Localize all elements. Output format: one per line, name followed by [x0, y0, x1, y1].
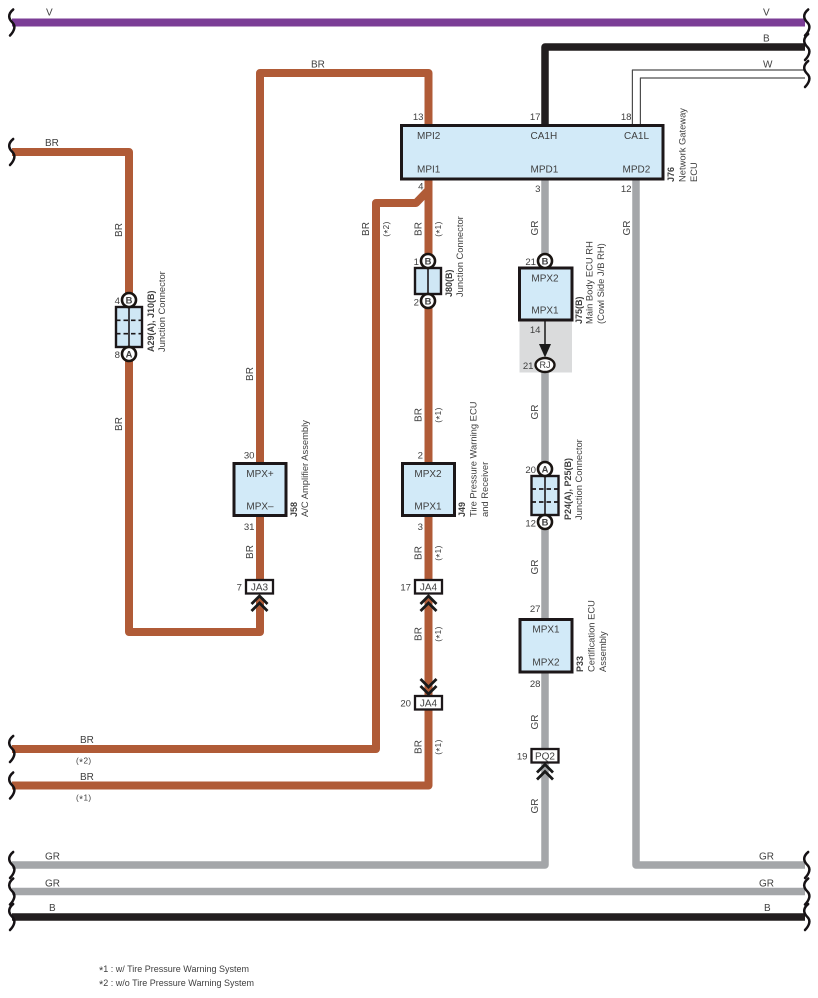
svg-text:A29(A), J10(B): A29(A), J10(B)	[146, 290, 156, 352]
svg-text:B: B	[542, 256, 549, 267]
svg-text:MPX2: MPX2	[414, 469, 442, 480]
off-page squiggle B top right	[804, 34, 809, 60]
svg-text:BR: BR	[414, 222, 425, 236]
svg-text:J49: J49	[457, 502, 467, 517]
pin circle B (A29 pin 4)	[122, 293, 136, 307]
off-page squiggle GR row1 left	[9, 852, 14, 878]
svg-text:V: V	[46, 8, 53, 19]
svg-text:(*1): (*1)	[434, 407, 446, 423]
svg-text:12: 12	[621, 184, 632, 195]
svg-text:(*2): (*2)	[76, 757, 92, 769]
svg-text:and Receiver: and Receiver	[479, 462, 490, 517]
svg-text:28: 28	[530, 679, 541, 690]
svg-text:18: 18	[621, 112, 632, 123]
svg-text:4: 4	[418, 182, 424, 193]
svg-text:(*2): (*2)	[382, 221, 394, 237]
wire from J75 pin 14 to RJ (thin with arrowhead)	[544, 321, 546, 346]
svg-text:21: 21	[523, 361, 534, 372]
pin circle B (J80 pin 1)	[421, 254, 435, 268]
svg-text:BR: BR	[245, 545, 256, 559]
svg-text:BR: BR	[114, 223, 125, 237]
pin circle A (A29 pin 8)	[122, 347, 136, 361]
junction connector A29(A), J10(B) grid box	[116, 307, 142, 347]
wire W (white, hollow outline) from off-page right to J76 pin 18 CA1L	[632, 70, 805, 126]
svg-text:(*1): (*1)	[434, 221, 446, 237]
svg-text:Junction Connector: Junction Connector	[454, 216, 465, 297]
svg-text:Junction Connector: Junction Connector	[573, 439, 584, 520]
off-page squiggle GR row2 left	[9, 879, 14, 905]
svg-text:(*1): (*1)	[434, 545, 446, 561]
wire BR (*1) from J76 pin 4 MPI1 down through J80 and J49 to JA4 pin 17	[425, 178, 433, 581]
svg-text:J58: J58	[289, 502, 299, 517]
svg-text:20: 20	[525, 465, 536, 476]
wire BR (*2) off-page left up to branch joint near J76 pin 4	[12, 190, 429, 749]
svg-text:(*1): (*1)	[434, 739, 446, 755]
svg-text:2: 2	[418, 451, 423, 462]
svg-text:MPX+: MPX+	[246, 469, 274, 480]
off-page squiggle BR (*2) left	[9, 736, 14, 762]
pin circle B (J75 pin 21)	[538, 254, 552, 268]
svg-text:13: 13	[413, 112, 424, 123]
svg-text:31: 31	[244, 522, 255, 533]
svg-text:JA3: JA3	[251, 583, 269, 594]
svg-text:19: 19	[517, 752, 528, 763]
svg-text:BR: BR	[414, 627, 425, 641]
svg-text:BR: BR	[80, 772, 94, 783]
svg-text:21: 21	[525, 257, 536, 268]
svg-text:7: 7	[237, 583, 242, 594]
ECU J76 Network Gateway ECU box	[402, 126, 664, 180]
svg-text:Network Gateway: Network Gateway	[677, 108, 688, 182]
svg-text:P24(A), P25(B): P24(A), P25(B)	[563, 458, 573, 520]
off-page squiggle B row right	[804, 904, 809, 930]
svg-text:MPX1: MPX1	[532, 625, 560, 636]
wire GR bus (second row, off-page both sides)	[12, 888, 805, 896]
svg-text:MPI2: MPI2	[417, 131, 441, 142]
connector JA3 pin 7	[246, 580, 273, 594]
svg-text:GR: GR	[530, 715, 541, 730]
wire BR J58 MPX- pin 31 down to JA3 pin 7	[256, 515, 264, 581]
svg-text:BR: BR	[245, 367, 256, 381]
svg-text:GR: GR	[45, 879, 60, 890]
svg-text:JA4: JA4	[420, 699, 438, 710]
svg-text:MPI1: MPI1	[417, 165, 441, 176]
ECU J49 Tire Pressure Warning ECU box	[403, 464, 455, 516]
svg-text:CA1H: CA1H	[531, 131, 558, 142]
svg-text:MPX1: MPX1	[414, 502, 442, 513]
svg-text:27: 27	[530, 604, 541, 615]
svg-text:P33: P33	[575, 656, 585, 672]
svg-text:GR: GR	[530, 799, 541, 814]
svg-text:B: B	[763, 34, 770, 45]
svg-text:GR: GR	[622, 221, 633, 236]
ECU J75(B) Main Body ECU RH box	[520, 268, 573, 320]
svg-text:B: B	[425, 256, 432, 267]
off-page squiggle BR (*1) left	[9, 773, 14, 799]
svg-text:B: B	[425, 296, 432, 307]
svg-text:J80(B): J80(B)	[444, 269, 454, 297]
svg-text:W: W	[763, 60, 773, 71]
off-page squiggle BR left	[9, 139, 14, 165]
svg-text:ECU: ECU	[688, 162, 699, 182]
chevron pair up below PQ2	[537, 765, 553, 780]
svg-text:GR: GR	[759, 879, 774, 890]
junction connector P24(A), P25(B) grid box	[532, 476, 559, 515]
svg-text:BR: BR	[80, 735, 94, 746]
svg-text:MPX1: MPX1	[531, 306, 559, 317]
off-page squiggle W right	[804, 61, 809, 87]
svg-text:Certification ECU: Certification ECU	[586, 600, 597, 672]
pin circle A (P24 pin 20)	[538, 462, 552, 476]
connector JA4 pin 20	[415, 696, 442, 710]
svg-text:GR: GR	[530, 221, 541, 236]
svg-text:BR: BR	[45, 138, 59, 149]
svg-text:B: B	[126, 295, 133, 306]
svg-text:Assembly: Assembly	[597, 631, 608, 672]
wire B bus (bottom row, off-page both sides)	[12, 913, 805, 921]
svg-text:MPX2: MPX2	[531, 274, 559, 285]
off-page squiggle B row left	[9, 904, 14, 930]
off-page squiggle V right	[804, 10, 809, 36]
svg-text:BR: BR	[414, 408, 425, 422]
svg-text:GR: GR	[530, 405, 541, 420]
svg-text:JA4: JA4	[420, 583, 438, 594]
wire BR from J58 MPX+ pin 30 up and over to J76 pin 13 MPI2	[260, 73, 429, 464]
svg-text:RJ: RJ	[540, 360, 551, 370]
relay block node RJ	[536, 358, 555, 372]
chevron pair down above JA4 pin 20	[421, 679, 437, 694]
ECU P33 Certification ECU Assembly box	[520, 620, 572, 673]
svg-text:BR: BR	[311, 60, 325, 71]
svg-text:BR: BR	[114, 417, 125, 431]
svg-text:CA1L: CA1L	[624, 131, 649, 142]
svg-text:A: A	[126, 349, 133, 360]
junction connector J80(B) grid box	[415, 268, 441, 294]
svg-text:(*1): (*1)	[76, 794, 92, 806]
wire V bus (violet, off-page both sides)	[12, 19, 805, 27]
svg-text:8: 8	[115, 350, 120, 361]
connector PQ2 pin 19	[532, 749, 559, 763]
svg-text:Tire Pressure Warning ECU: Tire Pressure Warning ECU	[468, 401, 479, 517]
wire B (black) from off-page right to J76 pin 17 CA1H	[545, 47, 805, 126]
svg-text:Junction Connector: Junction Connector	[156, 271, 167, 352]
wire BR off-page left through A29 junction down, across to JA3 chevrons	[12, 152, 260, 632]
wire GR from J76 pin 12 MPD2 down to off-page right	[636, 178, 805, 865]
svg-text:12: 12	[525, 519, 536, 530]
svg-text:*1 : w/ Tire Pressure Warning: *1 : w/ Tire Pressure Warning System	[99, 964, 249, 977]
wire BR (*1) between JA4 chevrons pin 17 and JA4 pin 20	[425, 598, 433, 697]
svg-text:J76: J76	[666, 167, 676, 182]
svg-text:GR: GR	[45, 852, 60, 863]
chevron pair up below JA4 pin 17	[421, 596, 437, 611]
svg-text:17: 17	[400, 583, 411, 594]
svg-text:(Cowl Side J/B RH): (Cowl Side J/B RH)	[595, 243, 606, 324]
svg-text:17: 17	[530, 112, 541, 123]
off-page squiggle GR row1 right	[804, 852, 809, 878]
svg-text:(*1): (*1)	[434, 626, 446, 642]
svg-text:B: B	[49, 903, 56, 914]
wire GR from J76 pin 3 MPD1 down through J75 P24 P33 PQ2 to off-page left	[12, 178, 545, 865]
chevron pair up below JA3	[252, 596, 268, 611]
svg-text:GR: GR	[530, 560, 541, 575]
svg-text:B: B	[764, 903, 771, 914]
svg-text:BR: BR	[414, 740, 425, 754]
pin circle B (P24 pin 12)	[538, 515, 552, 529]
svg-text:GR: GR	[759, 852, 774, 863]
svg-text:20: 20	[400, 699, 411, 710]
svg-text:30: 30	[244, 451, 255, 462]
svg-text:MPX–: MPX–	[246, 502, 274, 513]
svg-text:BR: BR	[414, 546, 425, 560]
svg-text:MPD2: MPD2	[623, 165, 651, 176]
svg-text:3: 3	[535, 184, 540, 195]
svg-text:MPD1: MPD1	[531, 165, 559, 176]
svg-text:B: B	[542, 517, 549, 528]
svg-text:MPX2: MPX2	[532, 658, 560, 669]
svg-text:2: 2	[414, 298, 419, 309]
svg-text:PQ2: PQ2	[535, 752, 555, 763]
svg-text:*2 : w/o Tire Pressure Warning: *2 : w/o Tire Pressure Warning System	[99, 978, 254, 991]
svg-text:V: V	[763, 8, 770, 19]
svg-text:A/C Amplifier Assembly: A/C Amplifier Assembly	[299, 420, 310, 517]
pin circle B (J80 pin 2)	[421, 294, 435, 308]
off-page squiggle V left	[9, 10, 14, 36]
connector JA4 pin 17	[415, 580, 442, 594]
wire BR (*1) off-page left up to JA4 pin 20	[12, 709, 429, 786]
svg-text:Main Body ECU RH: Main Body ECU RH	[584, 241, 595, 324]
svg-text:J75(B): J75(B)	[574, 296, 584, 324]
svg-text:3: 3	[418, 522, 423, 533]
svg-text:BR: BR	[361, 222, 372, 236]
ECU J58 A/C Amplifier Assembly box	[234, 464, 286, 516]
svg-text:A: A	[542, 464, 549, 475]
svg-text:4: 4	[115, 296, 121, 307]
shield panel below J75(B)	[520, 320, 573, 373]
off-page squiggle GR row2 right	[804, 879, 809, 905]
svg-text:14: 14	[530, 325, 541, 336]
svg-text:1: 1	[414, 257, 419, 268]
